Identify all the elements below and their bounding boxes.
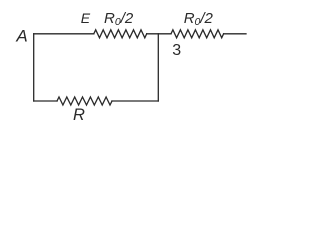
wire right lead after second resistor [224,33,246,35]
wire bottom-left lead to resistor R [34,100,57,102]
wire right vertical side of loop (node 3 drop) [157,34,159,101]
svg-text:R: R [73,106,85,124]
svg-text:3: 3 [172,42,181,59]
svg-text:A: A [15,26,27,45]
wire bottom-right lead from resistor R to right corner [112,100,158,102]
wire top-left lead from node A corner to resistor R0/2 (first) [34,33,94,35]
resistor R0/2 (first, top branch) [94,30,147,38]
resistor R0/2 (second, right branch) [171,30,224,38]
wire left vertical side of loop [33,34,35,101]
svg-text:E: E [81,10,91,26]
resistor R (bottom branch) [57,97,112,105]
wire between first resistor and node 3 junction [147,33,171,35]
